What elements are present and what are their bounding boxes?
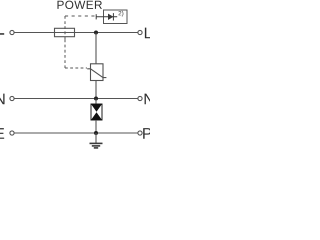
- wire varistor to N: [95, 81, 97, 99]
- terminal circle L left: [10, 30, 14, 34]
- terminal circle L right: [138, 30, 142, 34]
- label POWER: [57, 1, 101, 9]
- terminal circle N left: [10, 96, 14, 100]
- spark gap F2 (box): [91, 104, 102, 120]
- wire N to spark gap: [95, 99, 97, 105]
- fuse / thermal disconnector F1: [55, 28, 75, 36]
- label N left (cut at edge): [0, 94, 5, 105]
- wire through fuse: [55, 32, 75, 34]
- dashed link: below fuse down to varistor: [65, 39, 87, 68]
- label PE right (cut at edge): [143, 128, 151, 139]
- terminal circle E left: [10, 131, 14, 135]
- terminal circle N right: [138, 96, 142, 100]
- wire N line: [14, 98, 137, 100]
- ground symbol: [90, 143, 103, 148]
- label N right: [145, 94, 154, 105]
- terminal circle E right: [138, 131, 142, 135]
- wire L line: [14, 32, 137, 34]
- wire E line: [14, 132, 137, 134]
- indicator LED U1 (diode symbol with anode lead): [96, 13, 117, 20]
- varistor RV1 (box): [91, 64, 104, 81]
- node junction on L: [94, 31, 98, 35]
- terminal L left (cut label stub): [0, 33, 4, 35]
- node junction on E: [94, 131, 98, 135]
- pin label 2) on indicator: [119, 11, 124, 17]
- label E left (cut at edge): [0, 128, 4, 139]
- label L right: [145, 28, 152, 39]
- dashed link: disconnector to indicator (top corner): [65, 16, 95, 28]
- node junction on N: [94, 97, 98, 101]
- wire E to ground: [95, 133, 97, 143]
- varistor RV1 (diagonal with hooks): [87, 69, 106, 78]
- wire L to varistor: [95, 33, 97, 65]
- wire spark gap to E: [95, 120, 97, 133]
- spark gap F2 (black triangles tip to tip): [91, 104, 102, 112]
- dashed link crossing fuse: [64, 26, 66, 39]
- indicator LED U1 (box): [104, 10, 128, 24]
